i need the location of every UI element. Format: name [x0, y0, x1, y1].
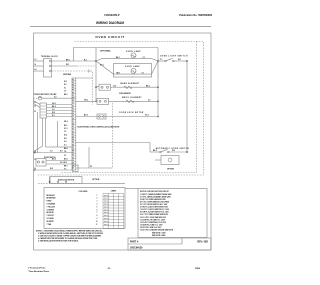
wire mid run A: [76, 142, 150, 144]
svg-text:GY-1: GY-1: [100, 65, 104, 67]
svg-text:BK-2: BK-2: [146, 85, 150, 87]
svg-text:V-2: V-2: [148, 100, 151, 102]
probe wire: [34, 97, 38, 99]
notes block: [36, 229, 104, 242]
svg-text:WIRING DIAGRAM: WIRING DIAGRAM: [96, 21, 124, 25]
svg-text:x x x x: x x x x: [104, 201, 109, 203]
svg-text:BROIL ELEMENT: BROIL ELEMENT: [122, 97, 142, 99]
svg-text:11 12 BR P2-2 HI LIMIT: 11 12 BR P2-2 HI LIMIT N.C. 250F: [140, 219, 165, 221]
bake element symbol: [124, 86, 132, 88]
node main junction: [95, 60, 97, 62]
svg-text:R RED: R RED: [47, 201, 53, 203]
svg-text:-11-: -11-: [107, 268, 111, 270]
broil element symbol: [126, 100, 134, 102]
svg-text:V-2: V-2: [54, 96, 57, 98]
svg-text:R-1: R-1: [84, 60, 87, 62]
dashed option box outline: [37, 42, 204, 176]
left connector ladder: [40, 103, 47, 118]
svg-text:P8: P8: [72, 98, 74, 100]
strip pin text column: [72, 79, 74, 169]
node broil: [157, 101, 159, 103]
svg-text:COLORS: COLORS: [79, 191, 89, 193]
border terminal labels: [34, 102, 36, 170]
wire L1 stub: [34, 60, 44, 62]
svg-text:L1: L1: [35, 59, 37, 61]
svg-text:BK-1: BK-1: [66, 60, 70, 62]
svg-text:x x x x: x x x x: [104, 195, 109, 197]
wire drop to door motor: [49, 177, 51, 184]
svg-text:* Non-Illustrated Parts: * Non-Illustrated Parts: [28, 270, 50, 273]
svg-text:Y-1: Y-1: [160, 59, 163, 61]
svg-text:OVEN LIGHT SWITCH: OVEN LIGHT SWITCH: [160, 56, 188, 58]
svg-text:x x x x: x x x x: [104, 215, 109, 217]
svg-text:32: 32: [72, 160, 74, 162]
EOC board outline: [112, 103, 114, 168]
svg-text:23: 23: [72, 137, 74, 139]
svg-text:5995: 5995: [195, 268, 201, 270]
svg-text:P6: P6: [72, 92, 74, 94]
svg-text:12: 12: [72, 108, 74, 110]
wire riser to top run: [74, 48, 159, 62]
lamp L2 symbol: [131, 68, 136, 73]
wire W-1 from block: [52, 65, 78, 67]
svg-text:27: 27: [72, 147, 74, 149]
svg-text:R-3: R-3: [64, 84, 67, 86]
relay K1: [99, 84, 111, 90]
svg-text:R-2: R-2: [60, 151, 63, 153]
wire bake row: [96, 86, 99, 87]
svg-text:11: 11: [72, 105, 74, 107]
svg-text:OVEN LAMP: OVEN LAMP: [125, 65, 140, 68]
svg-text:BK-1: BK-1: [117, 72, 121, 74]
svg-text:FFES3025LP: FFES3025LP: [104, 14, 119, 17]
svg-text:BU-2: BU-2: [84, 115, 88, 117]
svg-text:15: 15: [72, 116, 74, 118]
svg-text:x x x x: x x x x: [104, 206, 109, 208]
lamp L1 symbol: [131, 53, 136, 58]
node bake: [157, 86, 159, 88]
svg-text:DOOR LOCK MOTOR: DOOR LOCK MOTOR: [119, 112, 143, 114]
wire lamp2: [96, 61, 114, 74]
wire left bus drop: [95, 48, 97, 102]
svg-text:REV: 00D: REV: 00D: [197, 241, 208, 244]
wire ladder diagonals: [34, 101, 41, 105]
dashed drop to EOC: [92, 72, 94, 105]
svg-text:OPTION: OPTION: [167, 168, 175, 170]
dashed inner vertical right: [60, 42, 197, 173]
wire N stub: [34, 65, 44, 67]
svg-text:BR BROWN: BR BROWN: [47, 198, 57, 200]
svg-text:BU-2: BU-2: [52, 159, 56, 161]
svg-text:J3: J3: [34, 111, 36, 113]
svg-text:Publication No. 5995538906: Publication No. 5995538906: [179, 14, 212, 17]
chart row numbers: [96, 195, 98, 226]
svg-text:11: 11: [96, 224, 98, 226]
svg-text:W-2: W-2: [172, 150, 175, 152]
svg-text:P3: P3: [72, 85, 74, 87]
wire latch switch: [150, 151, 160, 153]
svg-text:T-2: T-2: [64, 91, 66, 93]
svg-text:OVEN SENSOR: OVEN SENSOR: [119, 93, 132, 95]
svg-text:OPTION: OPTION: [92, 179, 100, 181]
wire border drop: [37, 112, 39, 153]
svg-text:13: 13: [72, 111, 74, 113]
svg-text:W-2: W-2: [52, 112, 55, 114]
svg-text:BU-1: BU-1: [64, 125, 68, 127]
EOC connector strip: [72, 78, 76, 170]
svg-text:R-2: R-2: [114, 85, 117, 87]
link line to right table: [125, 188, 138, 190]
oven lamp 2 box: [114, 64, 152, 78]
svg-text:P2: P2: [72, 82, 74, 84]
probe jack: [38, 96, 42, 100]
svg-text:x x x x: x x x x: [104, 204, 109, 206]
svg-text:V-1: V-1: [64, 88, 66, 90]
svg-text:19: 19: [72, 126, 74, 128]
svg-text:W-1: W-1: [66, 64, 69, 66]
svg-text:Y-2: Y-2: [50, 151, 53, 153]
svg-text:Y-3: Y-3: [64, 131, 66, 133]
svg-text:25: 25: [72, 142, 74, 144]
svg-text:W-1: W-1: [178, 59, 181, 61]
svg-text:x x x x: x x x x: [104, 218, 109, 220]
svg-text:Y YELLOW: Y YELLOW: [47, 206, 56, 208]
svg-text:8 9 OR P1-8 LIGHT S: 8 9 OR P1-8 LIGHT SWITCH N.O. 120V: [140, 212, 170, 214]
svg-text:R-3: R-3: [52, 115, 55, 117]
svg-text:Y-1: Y-1: [142, 72, 145, 74]
svg-text:OVEN LAMP: OVEN LAMP: [126, 50, 141, 53]
ground wire dashed: [52, 70, 89, 72]
wire row y152.5: [34, 152, 73, 154]
svg-text:29: 29: [72, 152, 74, 154]
wire latch row: [76, 116, 158, 118]
strip side labels: [64, 81, 68, 171]
svg-text:17: 17: [72, 121, 74, 123]
terminal block: [44, 59, 52, 78]
svg-text:BK-1: BK-1: [116, 57, 120, 59]
wire BK-1 from block: [52, 60, 97, 62]
svg-text:10: 10: [96, 221, 98, 223]
svg-text:33: 33: [72, 163, 74, 165]
svg-text:x x x x: x x x x: [104, 209, 109, 211]
node lamp bus: [157, 60, 159, 62]
switch symbol: [165, 60, 167, 62]
ladder wires to strip: [47, 104, 73, 106]
latch motor box: [161, 156, 179, 165]
svg-text:21: 21: [72, 131, 74, 133]
svg-text:Y-1: Y-1: [143, 57, 146, 59]
door lock verticals: [42, 118, 44, 146]
svg-text:J1: J1: [34, 102, 36, 104]
svg-text:P1: P1: [72, 79, 74, 81]
svg-text:x x x x: x x x x: [104, 224, 109, 226]
svg-text:x x x x: x x x x: [104, 212, 109, 214]
svg-text:BK-2: BK-2: [153, 150, 157, 152]
wire L2 stub: [34, 70, 44, 72]
svg-text:BR-1: BR-1: [64, 166, 68, 168]
svg-text:OR-2: OR-2: [84, 100, 88, 102]
colors legend box: [44, 188, 125, 229]
svg-text:PART #: PART #: [130, 241, 139, 244]
svg-text:P2: P2: [90, 166, 92, 168]
svg-text:L2: L2: [35, 69, 37, 71]
svg-text:GY-3: GY-3: [64, 128, 68, 130]
svg-text:G GREEN: G GREEN: [47, 209, 55, 211]
header rule: [30, 26, 211, 28]
svg-text:P9: P9: [72, 100, 74, 102]
svg-text:GY-2: GY-2: [60, 162, 64, 164]
svg-text:OVEN CIRCUIT: OVEN CIRCUIT: [95, 35, 124, 39]
wire lamp1: [96, 59, 158, 61]
svg-text:x x x x: x x x x: [104, 198, 109, 200]
svg-text:G-2: G-2: [64, 141, 67, 143]
wire door lock run: [58, 146, 73, 148]
svg-text:OPTIONAL: OPTIONAL: [100, 50, 111, 53]
svg-text:P7: P7: [72, 95, 74, 97]
svg-text:x x x x: x x x x: [104, 221, 109, 223]
relay K2: [97, 98, 109, 104]
wire right drop: [186, 61, 188, 152]
svg-text:V-3: V-3: [64, 155, 66, 157]
svg-text:20: 20: [72, 129, 74, 131]
svg-text:OR-1: OR-1: [52, 103, 56, 105]
svg-text:9 10 T P1-9 TEMP PR: 9 10 T P1-9 TEMP PROBE SEE NOTE: [140, 214, 168, 216]
EOC lower box left edge: [88, 147, 90, 168]
outer border: [34, 33, 212, 250]
svg-text:BU BLUE: BU BLUE: [47, 212, 54, 214]
wire broil row: [76, 100, 97, 102]
wire y170: [34, 169, 73, 171]
door motor box: [50, 177, 82, 184]
wire diagonal to border: [34, 146, 43, 152]
small box mid bottom: [73, 165, 79, 172]
svg-text:G-1: G-1: [64, 145, 67, 147]
svg-text:22: 22: [72, 134, 74, 136]
svg-text:30: 30: [72, 155, 74, 157]
svg-text:W-2: W-2: [50, 168, 53, 170]
svg-text:J2: J2: [34, 105, 36, 107]
svg-text:● Functional Parts: ● Functional Parts: [28, 267, 46, 270]
svg-text:TEMPERATURE PROBE: TEMPERATURE PROBE: [34, 93, 57, 96]
svg-text:W-2: W-2: [64, 81, 67, 83]
svg-text:GY-2: GY-2: [145, 115, 149, 117]
divider above legends: [38, 182, 82, 184]
wire to switch: [158, 60, 165, 62]
node switch right: [186, 60, 188, 62]
svg-text:31: 31: [72, 157, 74, 159]
svg-text:5 6 Y P1-5 DOOR S: 5 6 Y P1-5 DOOR SWITCH N.O. 120V: [140, 204, 168, 206]
chart grid: [103, 194, 124, 229]
svg-text:26: 26: [72, 144, 74, 146]
svg-text:16: 16: [72, 118, 74, 120]
svg-text:18: 18: [72, 124, 74, 126]
right legend table: [138, 189, 207, 238]
svg-text:28: 28: [72, 150, 74, 152]
wire from switch: [174, 60, 187, 62]
svg-text:W WHITE: W WHITE: [47, 221, 54, 223]
svg-text:BAKE ELEMENT: BAKE ELEMENT: [121, 82, 140, 85]
wire lamp bus drop: [157, 48, 159, 117]
svg-text:SEE NOTE 3 120V: SEE NOTE 3 120V: [152, 233, 166, 235]
svg-text:V-2: V-2: [52, 109, 55, 111]
svg-text:P5: P5: [72, 90, 74, 92]
svg-text:BK-2: BK-2: [52, 106, 56, 108]
svg-text:AUTOMATIC DOOR SWITCH: AUTOMATIC DOOR SWITCH: [156, 147, 190, 150]
ground symbol: [89, 69, 92, 72]
svg-text:10: 10: [72, 103, 74, 105]
strip top run: [76, 77, 93, 79]
svg-text:200C94020: 200C94020: [130, 247, 143, 250]
svg-text:BK-3: BK-3: [64, 94, 68, 96]
part number box: [128, 238, 211, 250]
svg-text:ELECTRONIC OVEN CONTROL (EOC): ELECTRONIC OVEN CONTROL (EOC) SEE NOTE: [78, 126, 121, 128]
svg-text:V VIOLET: V VIOLET: [47, 215, 54, 217]
colors rows: [47, 194, 57, 226]
svg-text:GROUND: GROUND: [63, 74, 72, 76]
svg-text:SW POS CLR PIN FUNCTION: SW POS CLR PIN FUNCTION CIRCUIT: [140, 191, 169, 193]
